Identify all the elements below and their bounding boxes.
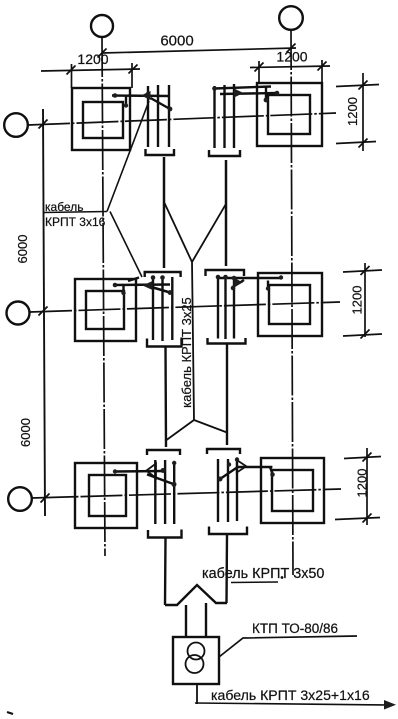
svg-text:1200: 1200	[350, 286, 365, 315]
svg-text:1200: 1200	[77, 51, 108, 67]
svg-text:6000: 6000	[18, 418, 33, 447]
svg-text:кабель КРПТ 3х25+1х16: кабель КРПТ 3х25+1х16	[211, 687, 370, 703]
svg-text:1200: 1200	[345, 97, 360, 126]
svg-text:КТП ТО-80/86: КТП ТО-80/86	[252, 621, 338, 636]
svg-text:6000: 6000	[15, 235, 30, 264]
svg-text:1200: 1200	[355, 469, 370, 498]
svg-text:кабель КРПТ 3х25: кабель КРПТ 3х25	[179, 297, 194, 408]
svg-text:6000: 6000	[160, 33, 193, 50]
svg-text:КРПТ 3х16: КРПТ 3х16	[45, 215, 106, 229]
svg-text:1200: 1200	[276, 49, 307, 65]
svg-text:кабель КРПТ 3х50: кабель КРПТ 3х50	[202, 566, 324, 582]
